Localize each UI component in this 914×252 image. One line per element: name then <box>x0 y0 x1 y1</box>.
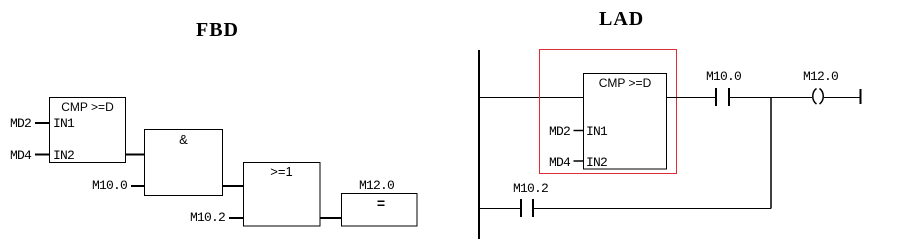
svg-text:>=1: >=1 <box>270 164 292 179</box>
svg-text:M10.0: M10.0 <box>92 178 127 193</box>
svg-text:M10.2: M10.2 <box>190 210 225 225</box>
svg-text:IN2: IN2 <box>586 155 607 170</box>
right rail terminal <box>860 89 862 104</box>
svg-text:M10.2: M10.2 <box>513 181 548 196</box>
svg-text:&: & <box>179 132 188 147</box>
wire OR output to assign block <box>320 217 342 219</box>
wire MD4 to IN2 <box>35 154 49 156</box>
coil M12.0 <box>813 89 824 105</box>
wire MD4 stub (LAD) <box>574 160 584 162</box>
wire M10.0 to AND input 2 <box>131 185 145 187</box>
junction wire: rung1 to rung2 <box>770 97 772 209</box>
left power rail <box>478 50 480 239</box>
comparator block CMP >=D (LAD) <box>584 74 667 170</box>
OR block >=1 <box>244 163 321 227</box>
svg-text:CMP >=D: CMP >=D <box>61 100 114 114</box>
svg-text:M10.0: M10.0 <box>706 69 741 84</box>
svg-text:IN1: IN1 <box>586 124 608 139</box>
wire M10.2 to OR input 2 <box>229 217 244 219</box>
assign block = <box>342 194 418 227</box>
wire CMP box to contact M10.0 <box>667 97 716 99</box>
wire MD2 to IN1 <box>35 122 49 124</box>
wire contact M10.2 to junction <box>534 208 771 210</box>
wire coil to right terminal <box>824 97 860 99</box>
wire MD2 stub (LAD) <box>574 130 584 132</box>
svg-text:IN2: IN2 <box>53 148 74 163</box>
contact M10.2 <box>521 199 533 217</box>
svg-text:FBD: FBD <box>196 19 239 41</box>
svg-text:M12.0: M12.0 <box>803 69 838 84</box>
wire contact M10.0 to coil <box>730 97 812 99</box>
svg-text:LAD: LAD <box>599 8 644 30</box>
wire CMP output to AND input 1 <box>126 154 145 156</box>
rung 1 wire: rail to CMP box <box>479 97 584 99</box>
contact M10.0 <box>716 88 729 106</box>
comparator block U1 CMP >=D (FBD) <box>50 98 126 163</box>
highlight box (red) <box>540 50 677 174</box>
svg-text:MD4: MD4 <box>549 155 571 170</box>
wire AND output to OR input 1 <box>223 185 244 187</box>
AND block & <box>145 130 223 196</box>
svg-text:IN1: IN1 <box>53 116 75 131</box>
svg-text:CMP >=D: CMP >=D <box>599 76 652 90</box>
svg-text:MD2: MD2 <box>549 124 570 139</box>
rung 2 wire: rail to contact M10.2 <box>479 208 520 210</box>
svg-text:MD2: MD2 <box>10 116 31 131</box>
svg-text:M12.0: M12.0 <box>359 178 394 193</box>
svg-text:MD4: MD4 <box>10 148 32 163</box>
